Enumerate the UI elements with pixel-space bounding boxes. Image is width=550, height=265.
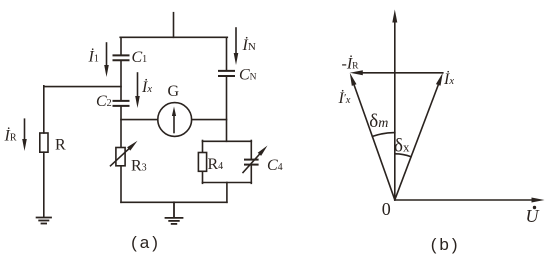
wire R4C4 frame bottom [203, 182, 252, 184]
svg-text:R4: R4 [208, 156, 224, 173]
current arrow Ix [137, 73, 139, 97]
angle arc delta_x [395, 154, 411, 157]
variable resistor R3 box [116, 148, 125, 166]
variable capacitor C4 arrow [243, 154, 260, 173]
galvanometer G inner arrow [173, 115, 175, 133]
svg-text:δm: δm [369, 111, 388, 132]
wire R4C4 frame left leg lower [202, 171, 204, 183]
current arrow IN [235, 28, 237, 54]
wire G horizontal [121, 119, 227, 121]
svg-text:(b): (b) [431, 235, 461, 254]
capacitor CN [219, 71, 234, 76]
vector Ix [395, 84, 439, 200]
wire right vertical above CN [226, 37, 228, 70]
ground left [37, 218, 51, 224]
wire bottom horizontal [121, 201, 227, 203]
svg-text:U: U [526, 206, 540, 226]
variable capacitor C4 plates [245, 160, 258, 165]
wire frame bottom stub [226, 183, 228, 203]
ground center [166, 202, 183, 224]
svg-text:δx: δx [394, 136, 410, 157]
phasor vertical axis [394, 21, 396, 200]
svg-text:CN: CN [239, 67, 257, 84]
resistor R4 box [198, 153, 206, 172]
svg-text:İx: İx [443, 70, 454, 88]
svg-text:İ1: İ1 [88, 48, 99, 66]
vector minus_IR [362, 72, 443, 74]
wire R branch lower [43, 152, 45, 217]
svg-text:0: 0 [382, 199, 391, 219]
wire right vertical CN to frame [226, 77, 228, 142]
wire left vertical R3 to bottom [120, 166, 122, 203]
vector Ix_prime [354, 84, 395, 200]
svg-text:C4: C4 [267, 157, 283, 174]
galvanometer G circle [158, 103, 192, 137]
svg-text:-İR: -İR [342, 55, 360, 73]
wire R4C4 frame left leg [202, 141, 204, 153]
variable resistor R3 arrow [111, 148, 130, 166]
phasor horizontal axis U [395, 199, 533, 201]
svg-text:C1: C1 [132, 49, 148, 66]
wire left horizontal [44, 86, 121, 88]
svg-text:İ′x: İ′x [338, 89, 351, 107]
wire R4C4 frame top [203, 140, 252, 142]
capacitor C1 [114, 55, 129, 60]
current arrow IR [24, 119, 26, 140]
angle arc delta_m [372, 133, 394, 137]
wire top horizontal [120, 36, 227, 38]
current arrow I1 [106, 43, 108, 66]
wire left vertical C2 to R3 [120, 107, 122, 148]
wire left vertical C1 to C2 [120, 61, 122, 100]
wire R4C4 frame right leg upper [250, 141, 252, 160]
wire left vertical above C1 [120, 37, 122, 54]
wire R4C4 frame right leg lower [250, 165, 252, 183]
wire R branch upper [43, 86, 45, 133]
svg-text:İN: İN [242, 36, 256, 54]
resistor R box [40, 133, 48, 152]
svg-text:G: G [168, 83, 180, 100]
wire top stub [173, 13, 175, 38]
svg-text:C2: C2 [96, 93, 112, 110]
capacitor C2 [114, 101, 129, 106]
svg-text:R: R [55, 137, 66, 154]
svg-text:(a): (a) [131, 233, 161, 252]
svg-text:İR: İR [4, 127, 17, 145]
svg-text:İx: İx [141, 78, 152, 96]
svg-text:R3: R3 [131, 158, 147, 175]
